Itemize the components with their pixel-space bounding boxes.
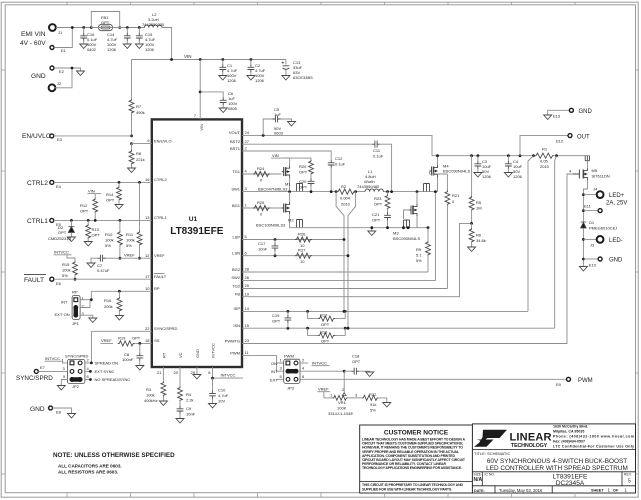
svg-text:VR1: VR1 bbox=[338, 400, 347, 405]
svg-text:TECHNOLOGY APPLICATIONS ENGINE: TECHNOLOGY APPLICATIONS ENGINEERING FOR … bbox=[362, 466, 462, 470]
svg-text:100k: 100k bbox=[146, 393, 155, 398]
wire OUT stub bbox=[520, 136, 568, 156]
svg-text:0.1uF: 0.1uF bbox=[373, 154, 384, 159]
connector E8 bbox=[49, 406, 62, 415]
capacitor C2 bbox=[247, 58, 266, 83]
node EN junction bbox=[130, 135, 133, 138]
svg-text:VREF: VREF bbox=[101, 338, 112, 343]
resistor R25 bbox=[253, 200, 270, 217]
svg-text:16: 16 bbox=[145, 177, 150, 182]
wire TG1 pin4 bbox=[242, 173, 282, 175]
svg-text:20: 20 bbox=[174, 370, 179, 375]
U1 right pin numbers bbox=[245, 130, 250, 355]
node FB divider bbox=[470, 222, 473, 225]
svg-text:OPT: OPT bbox=[352, 359, 361, 364]
svg-text:NOTE: UNLESS OTHERWISE SPECIFI: NOTE: UNLESS OTHERWISE SPECIFIED bbox=[53, 452, 175, 459]
capacitor C15 bbox=[135, 26, 155, 52]
svg-text:21: 21 bbox=[157, 370, 162, 375]
svg-text:N/A: N/A bbox=[474, 477, 483, 483]
svg-text:0805: 0805 bbox=[228, 106, 238, 111]
svg-text:R26: R26 bbox=[298, 232, 306, 237]
svg-text:5%: 5% bbox=[416, 258, 422, 263]
wire VIN rail down to R7 bbox=[131, 60, 133, 97]
svg-text:INTVCC: INTVCC bbox=[54, 250, 69, 255]
svg-text:R9: R9 bbox=[416, 247, 422, 252]
svg-text:INTVCC: INTVCC bbox=[312, 361, 327, 366]
svg-text:CTRL2: CTRL2 bbox=[27, 180, 48, 187]
svg-text:1206: 1206 bbox=[255, 78, 265, 83]
label EMI VIN 4V - 60V bbox=[20, 31, 46, 47]
inductor L1 bbox=[357, 169, 383, 192]
connector J1 bbox=[49, 24, 63, 35]
wire JP1 pin2 bbox=[80, 300, 90, 308]
wire ISN kelvin bbox=[555, 156, 557, 329]
net label VREF at VR1 bbox=[318, 387, 331, 398]
svg-text:100k: 100k bbox=[62, 268, 71, 273]
svg-text:100k: 100k bbox=[105, 238, 114, 243]
node VR1 wiper branch bbox=[343, 370, 346, 373]
svg-text:VOUT: VOUT bbox=[229, 130, 241, 135]
svg-text:R25: R25 bbox=[257, 200, 265, 205]
svg-text:2A, 25V: 2A, 25V bbox=[606, 201, 627, 207]
svg-text:LTC Confidential-For Customer: LTC Confidential-For Customer Use Only bbox=[553, 445, 634, 449]
svg-text:INTVCC: INTVCC bbox=[45, 356, 60, 361]
wire JP2 pin6 bbox=[85, 379, 91, 381]
capacitor C14 bbox=[107, 26, 131, 52]
svg-text:U1: U1 bbox=[189, 216, 198, 223]
svg-text:R13: R13 bbox=[92, 227, 100, 232]
svg-text:OPT: OPT bbox=[132, 336, 141, 341]
svg-text:GND: GND bbox=[579, 109, 593, 115]
svg-text:7443550320: 7443550320 bbox=[142, 22, 165, 27]
logo row separator bbox=[472, 448, 635, 450]
wire EN/UVLO bbox=[54, 136, 152, 144]
wire CTRL1 bbox=[54, 219, 152, 221]
net label VREF bbox=[124, 253, 135, 258]
wire RP bbox=[91, 291, 152, 299]
svg-text:FAULT: FAULT bbox=[154, 274, 167, 279]
svg-text:BG2: BG2 bbox=[232, 267, 241, 272]
capacitor C19 bbox=[272, 310, 291, 330]
node GND junction bbox=[71, 67, 74, 70]
svg-text:23: 23 bbox=[245, 338, 250, 343]
U1 left pin numbers bbox=[145, 138, 150, 343]
svg-text:63CE33BS: 63CE33BS bbox=[293, 75, 313, 80]
wire ISN bus bbox=[242, 327, 555, 329]
svg-text:OPT: OPT bbox=[372, 218, 381, 223]
capacitor C21 bbox=[372, 212, 391, 229]
resistor R19 bbox=[118, 336, 152, 347]
svg-text:BST1: BST1 bbox=[230, 146, 241, 151]
svg-text:2010: 2010 bbox=[540, 164, 550, 169]
connector E3 bbox=[50, 134, 63, 142]
svg-text:12: 12 bbox=[145, 253, 150, 258]
svg-text:10: 10 bbox=[145, 286, 150, 291]
svg-text:OF: OF bbox=[613, 488, 619, 492]
svg-text:VREF: VREF bbox=[154, 253, 165, 258]
wire JP3 pin4 to C18 bbox=[300, 370, 344, 372]
jumper JP2 bbox=[62, 354, 90, 390]
svg-text:ISP: ISP bbox=[234, 306, 241, 311]
svg-text:3314J-1-104E: 3314J-1-104E bbox=[328, 411, 353, 416]
svg-text:E4: E4 bbox=[56, 184, 62, 189]
node EN pin junction bbox=[130, 142, 133, 145]
svg-text:BSC100N06LS3: BSC100N06LS3 bbox=[256, 223, 286, 228]
resistor R8 bbox=[128, 144, 145, 173]
node JP2 pin6 bbox=[89, 378, 92, 381]
wire JP2 pin5 to ground bbox=[61, 380, 67, 386]
svg-text:0603: 0603 bbox=[274, 131, 284, 136]
wire FB1 to L2 bbox=[91, 27, 144, 29]
svg-text:2.2k: 2.2k bbox=[186, 398, 194, 403]
svg-text:7443550480: 7443550480 bbox=[357, 184, 380, 189]
svg-text:SIZE: SIZE bbox=[474, 473, 482, 477]
node funnel ISP/ISN bbox=[343, 310, 350, 330]
svg-text:10nF: 10nF bbox=[258, 247, 268, 252]
svg-text:OPT: OPT bbox=[101, 20, 110, 25]
svg-text:SHEET: SHEET bbox=[591, 488, 604, 492]
wire E8 to ground bbox=[53, 408, 72, 414]
svg-text:BST2: BST2 bbox=[230, 139, 241, 144]
svg-text:BSC090N04LS: BSC090N04LS bbox=[443, 169, 470, 174]
wire SW1 rail bbox=[242, 191, 438, 193]
resistor R21 gate bbox=[430, 171, 461, 289]
capacitor C4 bbox=[504, 154, 522, 179]
capacitor C6 bbox=[199, 91, 238, 113]
svg-text:ISN: ISN bbox=[233, 323, 240, 328]
svg-text:E8: E8 bbox=[56, 410, 62, 415]
resistor R18 bbox=[306, 327, 346, 344]
wire PWM out bbox=[300, 378, 566, 380]
svg-text:18: 18 bbox=[145, 338, 150, 343]
svg-text:100nF: 100nF bbox=[122, 357, 134, 362]
jumper JP3 bbox=[270, 354, 305, 391]
svg-text:E2: E2 bbox=[59, 69, 65, 74]
node R11 top bbox=[138, 181, 141, 184]
transistor M5 PMOS bbox=[569, 156, 610, 180]
svg-text:CTRL1: CTRL1 bbox=[27, 218, 48, 225]
svg-text:EXT·ON: EXT·ON bbox=[55, 312, 70, 317]
wire ISP bus bbox=[242, 310, 528, 312]
svg-text:E10: E10 bbox=[589, 263, 597, 268]
svg-text:R14: R14 bbox=[106, 192, 114, 197]
svg-text:E13: E13 bbox=[553, 114, 561, 119]
svg-text:26: 26 bbox=[245, 275, 250, 280]
resistor R22 bbox=[362, 392, 391, 413]
capacitor C9 bbox=[176, 406, 196, 423]
wire BG1 pin1 bbox=[242, 207, 282, 209]
svg-text:PWM: PWM bbox=[578, 378, 593, 384]
ground E8 bbox=[68, 414, 76, 419]
svg-text:19: 19 bbox=[245, 291, 250, 296]
wire JP1 pin3 to ground bbox=[80, 315, 93, 318]
wire E1 up to input wire bbox=[54, 28, 72, 48]
net label INTVCC at JP3 bbox=[300, 361, 330, 366]
svg-text:ALL CAPACITORS ARE 0603.: ALL CAPACITORS ARE 0603. bbox=[58, 464, 122, 469]
svg-text:C11: C11 bbox=[373, 148, 381, 153]
node SW2 top bbox=[434, 190, 437, 193]
net label INTVCC at JP2 bbox=[45, 356, 68, 363]
connector E2 bbox=[50, 66, 65, 74]
op-amp U1 box bbox=[152, 119, 242, 367]
wire L2 to VIN rail bbox=[162, 28, 172, 60]
ground U1 GND pin bbox=[193, 367, 201, 379]
resistor R20 bbox=[299, 160, 313, 175]
capacitor C20 bbox=[299, 174, 314, 192]
svg-text:PWM: PWM bbox=[284, 354, 294, 359]
svg-text:490k: 490k bbox=[136, 110, 145, 115]
svg-text:R12: R12 bbox=[80, 203, 88, 208]
svg-text:400kHz: 400kHz bbox=[144, 398, 158, 403]
svg-text:JP3: JP3 bbox=[287, 386, 295, 391]
svg-text:REV.: REV. bbox=[624, 473, 632, 477]
svg-text:Milpitas, CA 95035: Milpitas, CA 95035 bbox=[553, 430, 584, 434]
ground E13 arrow bbox=[544, 115, 552, 120]
svg-text:FB: FB bbox=[235, 292, 240, 297]
jumper JP1 bbox=[55, 290, 85, 327]
svg-text:221k: 221k bbox=[136, 157, 145, 162]
pin 7 VIN top bbox=[194, 60, 204, 131]
wire VREF bbox=[104, 257, 152, 259]
U1 bottom pin names bbox=[161, 343, 215, 358]
svg-text:OPT: OPT bbox=[321, 339, 330, 344]
capacitor C8 bbox=[122, 342, 144, 370]
svg-text:OPT: OPT bbox=[92, 233, 101, 238]
svg-text:10: 10 bbox=[300, 259, 305, 264]
svg-text:1206: 1206 bbox=[107, 47, 117, 52]
svg-text:OPT: OPT bbox=[106, 198, 115, 203]
zener D2 bbox=[48, 219, 75, 242]
wire SYNC/SPRD pin22 bbox=[91, 331, 151, 363]
U1 left pin names bbox=[154, 138, 178, 343]
svg-text:FAULT: FAULT bbox=[24, 277, 44, 284]
svg-text:1M: 1M bbox=[476, 206, 482, 211]
svg-text:TECHNOLOGY: TECHNOLOGY bbox=[511, 443, 548, 449]
svg-text:PWMTG: PWMTG bbox=[225, 338, 240, 343]
wire JP2 pin4 bbox=[85, 370, 91, 372]
svg-text:1206: 1206 bbox=[227, 78, 237, 83]
resistor R24 bbox=[253, 166, 270, 183]
resistor R11 bbox=[126, 182, 142, 259]
svg-text:BSC047N06LS3: BSC047N06LS3 bbox=[258, 187, 288, 192]
svg-text:LT8391EFE: LT8391EFE bbox=[170, 226, 223, 237]
svg-text:LINEAR: LINEAR bbox=[510, 432, 552, 444]
svg-text:R2: R2 bbox=[341, 184, 347, 189]
svg-text:E6: E6 bbox=[56, 281, 62, 286]
svg-text:R1: R1 bbox=[542, 147, 548, 152]
svg-text:0402: 0402 bbox=[87, 47, 97, 52]
resistor R12 bbox=[80, 194, 98, 221]
wire E7 to JP2 pin3 bbox=[38, 370, 67, 372]
connector J4 LED+ bbox=[582, 187, 627, 207]
svg-text:GND: GND bbox=[195, 349, 200, 358]
svg-text:0.004: 0.004 bbox=[340, 196, 351, 201]
connector E9 PWM bbox=[556, 377, 593, 387]
svg-text:13: 13 bbox=[145, 215, 150, 220]
label FAULT bbox=[24, 275, 46, 285]
resistor R6 bbox=[468, 223, 486, 251]
potentiometer VR1 bbox=[324, 371, 362, 416]
svg-text:M2: M2 bbox=[288, 218, 294, 223]
svg-text:PWM: PWM bbox=[230, 350, 240, 355]
wire R2 kelvin funnel bbox=[336, 192, 356, 329]
capacitor C16 bbox=[80, 26, 98, 52]
svg-text:Fax: (408)434-0507: Fax: (408)434-0507 bbox=[553, 440, 585, 444]
ground return line below M2/M3 bbox=[290, 227, 428, 229]
svg-text:OPT: OPT bbox=[299, 170, 308, 175]
svg-text:INT: INT bbox=[271, 369, 278, 374]
wire CTRL2 bbox=[54, 181, 152, 183]
capacitor C10 bbox=[209, 378, 229, 408]
date row bbox=[472, 486, 635, 493]
svg-text:R3: R3 bbox=[146, 387, 152, 392]
svg-text:R27: R27 bbox=[298, 248, 306, 253]
svg-text:R20: R20 bbox=[299, 164, 307, 169]
svg-text:0.1uF: 0.1uF bbox=[335, 162, 346, 167]
svg-text:SW2: SW2 bbox=[231, 275, 240, 280]
resistor R26 bbox=[295, 232, 312, 249]
svg-text:10V: 10V bbox=[218, 399, 225, 404]
wire M5 drain to LED column bbox=[583, 180, 587, 267]
svg-text:4.7uF: 4.7uF bbox=[218, 393, 229, 398]
ground mid arrow bbox=[368, 226, 376, 235]
svg-text:SYNC/SPRD: SYNC/SPRD bbox=[16, 375, 53, 382]
svg-text:INTVCC: INTVCC bbox=[221, 373, 236, 378]
svg-text:15: 15 bbox=[245, 323, 250, 328]
wire PWMTG bus bbox=[242, 174, 573, 344]
svg-text:IC NO.: IC NO. bbox=[485, 473, 495, 477]
wire TG2 bus bbox=[242, 288, 447, 290]
wire E2/J2 to ground bbox=[54, 68, 80, 88]
svg-text:SYNC/SPRD: SYNC/SPRD bbox=[154, 326, 177, 331]
transistor M1 bbox=[258, 166, 303, 192]
wire BST2 pin27 with capacitor C11 bbox=[242, 141, 392, 192]
svg-text:SYNC/SPRD: SYNC/SPRD bbox=[65, 354, 88, 359]
svg-text:5.1: 5.1 bbox=[416, 253, 422, 258]
wire LSP pin5 bbox=[242, 239, 344, 241]
svg-text:OUT: OUT bbox=[577, 135, 590, 141]
svg-text:C10: C10 bbox=[218, 388, 226, 393]
net label INTVCC bbox=[54, 250, 72, 255]
svg-text:SI7611DN: SI7611DN bbox=[592, 174, 610, 179]
svg-text:RT: RT bbox=[161, 352, 166, 358]
svg-text:EXT SYNC: EXT SYNC bbox=[95, 369, 115, 374]
resistor R15 bbox=[62, 255, 77, 281]
resistor R10 bbox=[105, 219, 122, 260]
svg-text:TG2: TG2 bbox=[232, 283, 241, 288]
transistor M4 bbox=[424, 156, 471, 192]
ground bbox=[77, 71, 85, 76]
node funnel LSP/LSN bbox=[343, 238, 350, 257]
resistor R14 bbox=[106, 181, 123, 209]
svg-text:C20: C20 bbox=[299, 179, 307, 184]
net label VREF at SS bbox=[101, 338, 114, 343]
svg-text:100k: 100k bbox=[126, 238, 135, 243]
svg-text:CTRL2: CTRL2 bbox=[154, 177, 167, 182]
svg-text:VREF: VREF bbox=[124, 253, 135, 258]
resistor R17 bbox=[306, 310, 346, 327]
svg-text:VIN: VIN bbox=[199, 124, 204, 131]
wire PWM pin11 bbox=[242, 356, 284, 380]
net label VIN at M1 bbox=[271, 153, 311, 166]
node OUT branch bbox=[519, 154, 522, 157]
resistor R13 bbox=[84, 219, 100, 246]
svg-text:R4: R4 bbox=[186, 392, 192, 397]
svg-text:R11: R11 bbox=[126, 232, 134, 237]
svg-text:C21: C21 bbox=[372, 212, 380, 217]
capacitor C1 bbox=[219, 58, 238, 83]
svg-text:14: 14 bbox=[245, 306, 250, 311]
svg-text:R10: R10 bbox=[105, 232, 113, 237]
svg-text:LED-: LED- bbox=[609, 238, 623, 244]
svg-text:RP: RP bbox=[72, 290, 78, 295]
transistor M2 bbox=[256, 192, 303, 228]
svg-text:JP2: JP2 bbox=[72, 384, 80, 389]
svg-text:E12: E12 bbox=[556, 139, 564, 144]
svg-text:R18: R18 bbox=[320, 329, 328, 334]
capacitor C7 bbox=[87, 255, 110, 273]
svg-text:TITLE: SCHEMATIC: TITLE: SCHEMATIC bbox=[474, 451, 510, 456]
svg-text:C12: C12 bbox=[335, 156, 343, 161]
wire J1 to FB1 bbox=[56, 27, 91, 29]
capacitor C13 polarized bbox=[282, 60, 313, 81]
svg-text:34.8k: 34.8k bbox=[476, 238, 486, 243]
diode D1 bbox=[581, 220, 618, 231]
svg-text:E3: E3 bbox=[57, 137, 63, 142]
resistor R16 bbox=[104, 290, 123, 320]
svg-text:17: 17 bbox=[145, 274, 150, 279]
svg-text:VIN: VIN bbox=[88, 189, 95, 194]
svg-text:INT: INT bbox=[61, 300, 68, 305]
U1 right pin names bbox=[225, 130, 241, 355]
resistor R9 bbox=[416, 226, 430, 272]
wire FAULT bbox=[54, 278, 152, 280]
wire SW2 bus bbox=[242, 192, 435, 281]
svg-text:ALL RESISTORS ARE 0603.: ALL RESISTORS ARE 0603. bbox=[58, 470, 118, 475]
ground JP1 bbox=[89, 318, 97, 323]
svg-text:E11: E11 bbox=[584, 204, 592, 209]
svg-text:100K: 100K bbox=[337, 406, 347, 411]
svg-text:LED+: LED+ bbox=[609, 193, 625, 199]
connector E7 bbox=[34, 365, 45, 373]
svg-text:R19: R19 bbox=[118, 336, 126, 341]
svg-text:PMEG6010CEJ: PMEG6010CEJ bbox=[589, 226, 617, 231]
svg-text:R8: R8 bbox=[136, 151, 142, 156]
wire BG2 bus bbox=[242, 271, 428, 273]
svg-text:VC: VC bbox=[178, 352, 183, 358]
wire JP1 pin1 bbox=[80, 299, 91, 301]
wire GND top right bbox=[548, 110, 570, 115]
svg-text:2010: 2010 bbox=[341, 202, 351, 207]
address block bbox=[553, 425, 634, 449]
svg-text:JP1: JP1 bbox=[72, 321, 80, 326]
svg-text:M5: M5 bbox=[592, 168, 598, 173]
svg-text:EXT: EXT bbox=[270, 377, 278, 382]
svg-text:R23: R23 bbox=[374, 196, 382, 201]
svg-text:OPT: OPT bbox=[321, 322, 330, 327]
svg-text:VIN: VIN bbox=[184, 54, 192, 59]
svg-text:200k: 200k bbox=[104, 304, 113, 309]
svg-text:24: 24 bbox=[245, 130, 250, 135]
node M4 drain bbox=[436, 154, 439, 157]
svg-text:OPT: OPT bbox=[58, 230, 67, 235]
node VIN label bbox=[170, 54, 191, 61]
svg-text:0.47uF: 0.47uF bbox=[97, 268, 110, 273]
svg-text:R21: R21 bbox=[452, 193, 460, 198]
svg-text:LSN: LSN bbox=[232, 251, 240, 256]
resistor R3 bbox=[144, 367, 167, 406]
svg-text:E7: E7 bbox=[40, 365, 46, 370]
